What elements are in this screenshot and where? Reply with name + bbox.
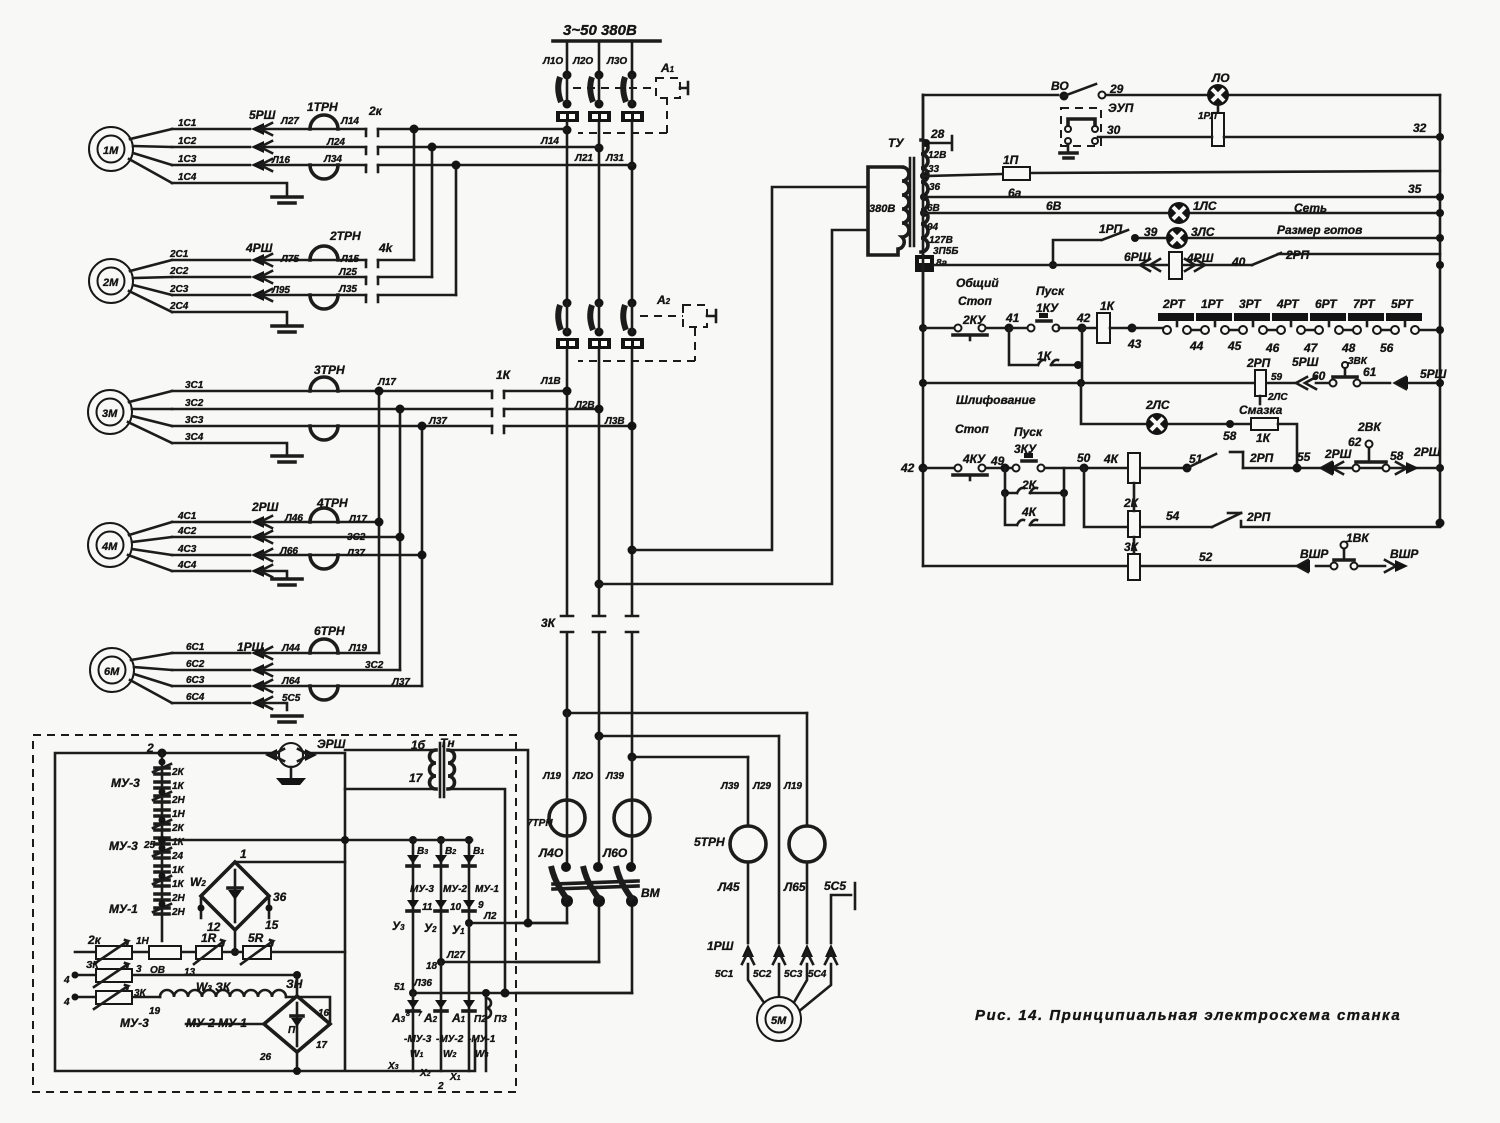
contactor 3K pole2 [593, 616, 605, 736]
knife switch ВМ pole3 [616, 862, 638, 907]
motor 2M leads [129, 260, 172, 312]
svg-text:25: 25 [143, 840, 156, 851]
svg-text:Х3: Х3 [387, 1061, 399, 1072]
overload heater 6TRN [310, 624, 345, 700]
plug ЭРШ [265, 737, 346, 767]
label W2 bridge [190, 875, 206, 889]
label Л3В [604, 416, 625, 427]
wire row D [923, 565, 1385, 568]
transformer Тн right winding [448, 750, 455, 789]
label 2C2 [169, 266, 189, 277]
svg-text:Л3О: Л3О [606, 56, 627, 67]
svg-text:3: 3 [136, 964, 142, 975]
label 4РШ [245, 241, 273, 255]
svg-text:Л37: Л37 [391, 677, 410, 688]
thermal contact 2РТ [1158, 297, 1194, 334]
transformer Тн left winding [430, 750, 436, 789]
svg-text:Стоп: Стоп [955, 422, 990, 436]
label 4РШ [1186, 251, 1214, 265]
svg-text:40: 40 [1231, 255, 1246, 269]
label 4C1 [177, 511, 197, 522]
breaker A2 pole 1 [558, 299, 571, 337]
label Смазка [1239, 403, 1283, 417]
svg-text:Л95: Л95 [271, 285, 290, 296]
wire link phase2 right [595, 732, 780, 741]
lamp 1ЛС [1168, 199, 1217, 224]
label 60 [1312, 369, 1326, 383]
svg-text:1ЛС: 1ЛС [1193, 199, 1217, 213]
wire 2C1 [172, 259, 414, 262]
wire phase L3 drop [631, 41, 634, 72]
svg-text:4К: 4К [1021, 505, 1038, 519]
motor 6M [90, 648, 134, 692]
svg-text:2ТРН: 2ТРН [329, 229, 361, 243]
label 17 [316, 1040, 328, 1051]
label Л65 [783, 880, 806, 894]
contactor 3K pole1 [561, 616, 573, 713]
label МУ-1 [109, 902, 138, 916]
label 61 [1363, 365, 1377, 379]
svg-text:8а: 8а [936, 258, 948, 269]
label 6C2 [186, 659, 205, 670]
diode А1 [451, 1000, 475, 1025]
svg-text:5М: 5М [771, 1015, 787, 1027]
label Стоп grind [955, 422, 990, 436]
arrows 2РШ right [1396, 445, 1441, 474]
svg-text:Размер готов: Размер готов [1277, 223, 1362, 237]
svg-text:Л65: Л65 [783, 880, 806, 894]
wire phase3 below A2 [628, 349, 637, 614]
wire 1C4 [172, 183, 287, 196]
svg-text:3С2: 3С2 [347, 532, 366, 543]
resistor row wire [75, 948, 345, 956]
svg-text:Л19: Л19 [542, 771, 561, 782]
wire 42 to 2ЛС branch [1081, 383, 1251, 424]
label Л17 4M [348, 514, 367, 525]
svg-text:4РТ: 4РТ [1276, 297, 1300, 311]
wire 3C1 [172, 390, 567, 393]
label 1C2 [178, 136, 197, 147]
svg-text:1С3: 1С3 [178, 154, 197, 165]
diode А3 [391, 1000, 419, 1025]
svg-text:2С1: 2С1 [169, 249, 189, 260]
svg-text:Л39: Л39 [605, 771, 624, 782]
svg-text:2РШ: 2РШ [251, 500, 279, 514]
label Л19 left [542, 771, 561, 782]
svg-text:58: 58 [1390, 449, 1404, 463]
wire 1C1 [172, 128, 567, 131]
label 6РШ [1124, 250, 1151, 264]
svg-text:-МУ-3: -МУ-3 [404, 1034, 432, 1045]
A2 trip linkage dashed [578, 316, 695, 361]
limit switch 3ВК [1330, 356, 1368, 387]
svg-text:ЗК: ЗК [86, 960, 99, 971]
breaker A1 pole 2 [590, 71, 603, 109]
svg-text:2К: 2К [1123, 496, 1140, 510]
lamp ЛО [1207, 71, 1230, 106]
overload heater 3TRN [310, 363, 345, 440]
wire 2M tap 2 [428, 143, 437, 278]
label 28 [930, 127, 945, 141]
lamp 2ЛС [1145, 398, 1170, 435]
label 4C2 [177, 526, 197, 537]
label Л60 [602, 846, 628, 860]
tap 28 terminal [922, 136, 952, 150]
wire phase2 to A2 [595, 122, 604, 300]
contact 1РП branch [1049, 222, 1128, 269]
svg-text:9: 9 [478, 900, 484, 911]
svg-text:1Н: 1Н [136, 936, 150, 947]
label 6C1 [186, 642, 205, 653]
svg-text:5РШ: 5РШ [249, 108, 276, 122]
plug arrows 1РШ 5M [707, 939, 837, 964]
A1 release box [656, 61, 688, 98]
svg-text:60: 60 [1312, 369, 1326, 383]
label 6C4 [186, 692, 205, 703]
svg-text:12В: 12В [928, 150, 946, 161]
svg-text:51: 51 [394, 982, 406, 993]
svg-text:Л21: Л21 [574, 153, 593, 164]
wire phase3 to A2 [628, 122, 637, 300]
svg-text:43: 43 [1127, 337, 1142, 351]
wire 3C2 [172, 408, 599, 411]
svg-text:1К: 1К [172, 879, 185, 890]
label W1 [410, 1049, 423, 1060]
svg-text:У2: У2 [424, 921, 437, 935]
relay ЭУП dashed box [1061, 108, 1101, 146]
svg-text:1ТРН: 1ТРН [307, 100, 338, 114]
svg-text:3ТРН: 3ТРН [314, 363, 345, 377]
contact 2РП nc [1252, 248, 1310, 265]
svg-text:Л45: Л45 [717, 880, 740, 894]
label МУ-2 МУ-1 [186, 1016, 247, 1030]
svg-text:-МУ-1: -МУ-1 [468, 1034, 496, 1045]
label Л75 [280, 254, 299, 265]
svg-text:56: 56 [1380, 341, 1394, 355]
svg-text:2РШ: 2РШ [1324, 447, 1352, 461]
wire phase1 to A2 [563, 122, 572, 300]
label Л37 4M [346, 548, 365, 559]
label Л10 [542, 56, 563, 67]
label 5С4 [808, 969, 827, 980]
label 3C1 [185, 380, 204, 391]
svg-text:5С5: 5С5 [824, 879, 846, 893]
fuse block A2 phase3 [621, 338, 644, 349]
wire 5M phase3 [806, 713, 809, 943]
rectifier bridge 1 [201, 862, 269, 930]
svg-text:МУ-3: МУ-3 [410, 884, 434, 895]
wire node 18 [426, 950, 599, 972]
thyristor У2 [424, 900, 462, 935]
svg-text:W2: W2 [443, 1049, 456, 1060]
wire razmer line [1131, 234, 1444, 242]
wire 2C2 [172, 276, 432, 279]
svg-text:52: 52 [1199, 550, 1213, 564]
breaker A1 pole 1 [558, 71, 571, 109]
svg-text:МУ-3: МУ-3 [109, 839, 138, 853]
svg-text:2Н: 2Н [171, 907, 186, 918]
svg-text:Пуск: Пуск [1036, 284, 1065, 298]
wire phase1 below A2 [563, 349, 572, 614]
motor 4M leads [128, 522, 172, 571]
label МУ-3 b [109, 839, 138, 853]
label 4КУ [962, 452, 986, 466]
label 3C2 4M [347, 532, 366, 543]
svg-text:В1: В1 [473, 846, 484, 857]
svg-text:1РТ: 1РТ [1201, 297, 1224, 311]
svg-text:6С3: 6С3 [186, 675, 205, 686]
label 3C2 6M [365, 660, 384, 671]
bridge2 left lead [186, 1023, 264, 1026]
wire ВМ out3 [516, 992, 632, 995]
arrow 5РШ right [1395, 367, 1447, 389]
contact 2РП rowC [1212, 510, 1271, 527]
svg-text:5ТРН: 5ТРН [694, 835, 725, 849]
wire net line [925, 209, 1444, 217]
svg-text:39: 39 [1144, 225, 1158, 239]
diode column B2 [435, 836, 447, 961]
contact 2k gaps [366, 104, 383, 172]
right rail [1439, 95, 1442, 523]
variable resistor 3К [86, 960, 142, 987]
svg-text:Л19: Л19 [348, 643, 367, 654]
label Л44 [281, 643, 300, 654]
label 1 [240, 847, 247, 861]
label 3C4 [185, 432, 204, 443]
SEC-CTRL [919, 71, 1447, 566]
contact 1K gaps [492, 368, 512, 433]
wire phase L1 drop [566, 41, 569, 72]
stop button 4КУ [953, 465, 987, 481]
svg-text:1К: 1К [496, 368, 512, 382]
svg-text:5РШ: 5РШ [1420, 367, 1447, 381]
SEC-GRIND [900, 383, 1445, 580]
svg-text:42: 42 [1076, 311, 1091, 325]
node 55 [1293, 450, 1311, 473]
holding contact 2К [1001, 468, 1068, 497]
wire bridge1 bottom [231, 930, 239, 956]
label 36 [929, 182, 941, 193]
svg-text:1РШ: 1РШ [237, 640, 264, 654]
fuse 1П [1003, 153, 1030, 200]
svg-text:33: 33 [928, 164, 940, 175]
svg-text:Л2: Л2 [483, 911, 497, 922]
fuse 8a [915, 255, 948, 272]
svg-text:ЭУП: ЭУП [1108, 101, 1134, 115]
amplifier unit dashed border [33, 735, 516, 1092]
wire fuse to rail bottom [922, 252, 925, 330]
svg-text:11: 11 [422, 902, 433, 913]
contact 4k gaps [366, 241, 394, 302]
label 40 [1231, 255, 1246, 269]
label Л45 [717, 880, 740, 894]
svg-text:Л29: Л29 [752, 781, 771, 792]
left rail [922, 95, 925, 566]
label Х2 [419, 1068, 431, 1079]
svg-text:6М: 6М [104, 666, 120, 678]
label 54 [1166, 509, 1180, 523]
label 25 [143, 840, 156, 851]
label 33 [928, 164, 940, 175]
svg-text:1КУ: 1КУ [1036, 301, 1059, 315]
svg-text:6В: 6В [1046, 199, 1062, 213]
label 48 [1341, 341, 1356, 355]
svg-text:3М: 3М [102, 408, 118, 420]
lamp 3ЛС [1166, 225, 1215, 249]
label 35 [1408, 182, 1422, 196]
node 2 [146, 741, 167, 758]
svg-text:4К: 4К [1103, 452, 1120, 466]
limit switch 1ВК [1331, 531, 1371, 570]
svg-text:Л17: Л17 [377, 377, 396, 388]
label 2ЛС small [1267, 392, 1288, 403]
label Л24 [326, 137, 345, 148]
svg-text:2к: 2к [368, 104, 383, 118]
svg-text:А1: А1 [451, 1011, 466, 1025]
svg-text:19: 19 [149, 1006, 161, 1017]
svg-text:1К: 1К [172, 781, 185, 792]
limit switch 2ВК [1348, 420, 1390, 472]
label 5C5 6M [282, 693, 301, 704]
label 52 [1199, 550, 1213, 564]
svg-text:1R: 1R [201, 931, 217, 945]
label МУ-3 bottom [120, 1016, 149, 1030]
wire phase2 below A2 [595, 349, 604, 614]
label Тн [440, 736, 455, 750]
label Л17 [377, 377, 396, 388]
label 44 [1189, 339, 1204, 353]
wire 4C2 [172, 536, 400, 539]
svg-text:4С1: 4С1 [177, 511, 197, 522]
label Л64 [281, 676, 300, 687]
label Л21 [574, 153, 593, 164]
label 3КУ [1014, 442, 1037, 456]
Тн right top lead [448, 750, 528, 923]
figure caption [975, 1007, 1401, 1024]
label Л37 6M [391, 677, 410, 688]
row2 wire [63, 972, 297, 987]
label ЭУП [1108, 101, 1134, 115]
svg-text:МУ-2 МУ-1: МУ-2 МУ-1 [186, 1016, 247, 1030]
svg-text:3К: 3К [1124, 540, 1140, 554]
label МУ-3 col [410, 884, 434, 895]
label Л14 [340, 116, 359, 127]
label П [288, 1025, 296, 1036]
svg-text:1К: 1К [1100, 299, 1116, 313]
svg-text:3С3: 3С3 [185, 415, 204, 426]
svg-text:50: 50 [1077, 451, 1091, 465]
wire to transformer primary top [632, 187, 868, 550]
svg-text:2М: 2М [102, 277, 119, 289]
wire ВМ out1 [516, 922, 567, 925]
svg-text:2РТ: 2РТ [1162, 297, 1186, 311]
svg-text:Шлифование: Шлифование [956, 393, 1036, 407]
svg-text:36: 36 [273, 890, 287, 904]
svg-text:54: 54 [1166, 509, 1180, 523]
label МУ-3 a [111, 776, 140, 790]
wire row C [1084, 468, 1445, 528]
thermal contact 5РТ [1386, 297, 1422, 334]
svg-text:Л27: Л27 [446, 950, 465, 961]
label 46 [1265, 341, 1280, 355]
svg-text:4М: 4М [101, 541, 118, 553]
SEC-MID [375, 125, 869, 758]
label 3К [541, 616, 557, 630]
svg-text:W3 ЗК: W3 ЗК [196, 980, 232, 994]
resistor 1К smazka [1251, 418, 1297, 467]
svg-text:4РШ: 4РШ [1186, 251, 1214, 265]
breaker A2 pole 3 [623, 299, 636, 337]
svg-text:Л37: Л37 [346, 548, 365, 559]
node 49 [1001, 464, 1010, 473]
contact chain МУ windings [153, 753, 171, 941]
label Л37 [428, 416, 447, 427]
label 1КУ [1036, 301, 1059, 315]
svg-text:Х2: Х2 [419, 1068, 431, 1079]
svg-text:1К: 1К [1037, 349, 1053, 363]
SEC-CAPTION [975, 1007, 1401, 1024]
supply label 3~50 380V [563, 22, 637, 39]
plug arrows 5RSh [251, 123, 272, 171]
wire row 383 [919, 379, 1444, 387]
svg-text:29: 29 [1109, 82, 1124, 96]
wire B row [158, 836, 472, 844]
svg-text:3С2: 3С2 [185, 398, 204, 409]
diode column B1 [463, 836, 475, 924]
tap net node [920, 209, 928, 217]
wire 5M phase2 [778, 736, 781, 943]
svg-text:Л37: Л37 [428, 416, 447, 427]
label ТУ [888, 136, 904, 150]
svg-text:В2: В2 [445, 846, 456, 857]
wire 1C2 [172, 146, 599, 149]
svg-text:5С5: 5С5 [282, 693, 301, 704]
ВМ linkage [553, 881, 661, 900]
wire 8a line [934, 254, 1444, 269]
svg-text:Л75: Л75 [280, 254, 299, 265]
transformer TU primary [868, 167, 909, 255]
start button 1КУ [1009, 313, 1082, 332]
label W3 [475, 1049, 488, 1060]
svg-text:3С2: 3С2 [365, 660, 384, 671]
svg-text:6РТ: 6РТ [1315, 297, 1338, 311]
svg-text:2РШ: 2РШ [1413, 445, 1441, 459]
svg-text:35: 35 [1408, 182, 1422, 196]
wire 2C3 [172, 294, 456, 297]
label Л30 [606, 56, 627, 67]
thermal contact 6РТ [1310, 297, 1346, 334]
variable resistor 1R [194, 931, 224, 964]
svg-text:2к: 2к [87, 933, 102, 947]
svg-text:Л17: Л17 [348, 514, 367, 525]
wire 6C2 [172, 669, 400, 672]
tap 33 node [920, 172, 928, 180]
label Л19 6M [348, 643, 367, 654]
wire 6C1 [172, 652, 379, 655]
label В3 [417, 846, 428, 857]
bridge2 top lead [293, 971, 301, 996]
label Л34 [323, 154, 342, 165]
node 43 [1127, 324, 1142, 352]
wire 5M phase1 [747, 757, 750, 943]
supply bus [553, 39, 660, 43]
label Л20 [572, 56, 593, 67]
label 4C3 [177, 544, 197, 555]
holding contact 4К [1005, 493, 1064, 525]
thermal contact 7РТ [1348, 297, 1384, 334]
label 30 [1107, 123, 1121, 137]
svg-text:Л1О: Л1О [542, 56, 563, 67]
